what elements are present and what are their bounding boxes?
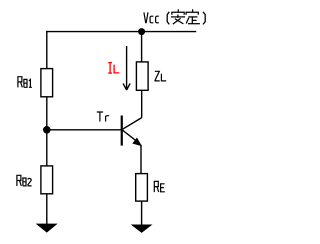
resistor RB2 xyxy=(41,166,53,194)
resistor RE xyxy=(136,174,148,202)
label kanji tei (stable) xyxy=(186,9,200,23)
label ZL xyxy=(154,71,166,81)
ground right xyxy=(132,225,151,233)
wire base: node A to transistor base xyxy=(47,129,121,131)
wire top horizontal Vcc rail xyxy=(46,31,196,33)
resistor ZL xyxy=(136,62,148,90)
label kanji an (stable) xyxy=(171,9,185,24)
wire left vertical from rail to RB1 xyxy=(46,31,48,69)
label RB2 xyxy=(17,175,32,186)
transistor Tr emitter lead xyxy=(123,130,140,143)
wire RE to right ground xyxy=(141,201,143,225)
wire RB1 to node A xyxy=(46,97,48,130)
wire rail to ZL xyxy=(141,32,143,62)
current arrow IL head xyxy=(123,83,130,90)
wire emitter to RE xyxy=(140,145,142,174)
wire node A to RB2 xyxy=(46,130,48,166)
transistor Tr emitter arrowhead xyxy=(133,139,140,146)
ground left xyxy=(37,224,57,232)
resistor RB1 xyxy=(41,69,53,97)
label Vcc xyxy=(144,12,159,23)
label ) paren xyxy=(203,12,205,25)
node top junction dot xyxy=(138,28,145,35)
current arrow IL line xyxy=(126,46,128,90)
label RE xyxy=(154,181,165,192)
label Tr xyxy=(97,112,109,122)
transistor Tr collector lead xyxy=(123,118,142,130)
label RB1 xyxy=(18,77,32,88)
wire ZL to collector xyxy=(141,90,143,117)
label IL current (red) xyxy=(108,63,119,74)
node A junction dot xyxy=(43,126,51,134)
label ( paren xyxy=(167,12,169,25)
transistor Tr base bar xyxy=(121,116,123,146)
wire RB2 to left ground xyxy=(46,194,48,224)
